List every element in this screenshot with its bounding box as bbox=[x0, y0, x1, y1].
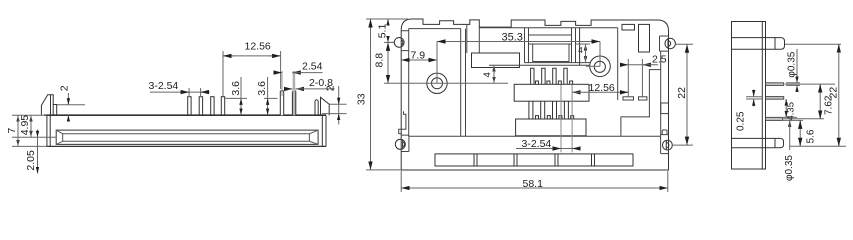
svg-text:4: 4 bbox=[578, 46, 583, 55]
svg-text:φ0.35: φ0.35 bbox=[786, 51, 797, 77]
dimension 7.62 bbox=[783, 84, 835, 119]
svg-text:22: 22 bbox=[676, 87, 688, 99]
dimension 4 (right) bbox=[576, 44, 591, 63]
internal slot walls bbox=[467, 24, 480, 53]
dimension 2 (left tab step) bbox=[57, 93, 85, 121]
header lower pads bbox=[536, 116, 574, 119]
internal shelf line bbox=[489, 64, 590, 66]
svg-text:12.56: 12.56 bbox=[589, 82, 615, 94]
dimension 3-2.54 (pin pitch, left view) bbox=[150, 88, 210, 97]
header lower pins bbox=[529, 101, 569, 119]
socket right wall bbox=[579, 28, 581, 65]
svg-text:φ0.35: φ0.35 bbox=[784, 155, 795, 181]
svg-text:3.6: 3.6 bbox=[256, 81, 268, 96]
dimension phi 0.35 (bottom pin) bbox=[783, 117, 797, 150]
left clip tab bbox=[41, 95, 56, 115]
left view body top edge bbox=[44, 114, 326, 116]
inner wall right bbox=[660, 51, 662, 135]
svg-text:12.56: 12.56 bbox=[245, 40, 271, 52]
dimension 4 (left) bbox=[493, 65, 495, 83]
pin P1 (left group) bbox=[188, 97, 191, 116]
svg-text:2: 2 bbox=[59, 85, 71, 91]
bottom pad dividers bbox=[474, 154, 595, 166]
center line through left hole bbox=[403, 82, 508, 84]
SMD pad b bbox=[639, 97, 647, 100]
dimension 22 (middle view) bbox=[673, 44, 693, 145]
bottom-left ear bbox=[401, 135, 409, 151]
dimension 7.9 bbox=[401, 42, 437, 84]
positioning hole left bbox=[427, 73, 447, 93]
svg-text:4: 4 bbox=[482, 72, 493, 77]
svg-text:33: 33 bbox=[356, 93, 368, 105]
dimension 5.6 bbox=[782, 120, 803, 146]
header middle block bbox=[514, 84, 589, 101]
dimension 22 (right view) bbox=[785, 44, 846, 146]
svg-text:2: 2 bbox=[324, 85, 336, 91]
right clip tab bbox=[315, 97, 329, 115]
card slot left chamfer bbox=[56, 130, 63, 144]
SD socket body bbox=[525, 35, 591, 63]
dimension 7 (left view overall height) bbox=[12, 115, 47, 146]
svg-text:8.8: 8.8 bbox=[374, 53, 386, 68]
dimension 5.1 bbox=[384, 19, 408, 42]
svg-text:5.1: 5.1 bbox=[376, 24, 388, 39]
bottom-right ear bbox=[661, 135, 669, 154]
dimension 3-2.54 (middle view) bbox=[516, 85, 580, 152]
pin P3 (left group) bbox=[211, 97, 214, 116]
L-shaped wall bbox=[621, 70, 661, 137]
dimension 12.56 (middle view) bbox=[572, 91, 628, 93]
top-right ear hole bbox=[665, 38, 675, 48]
dimension 2-0.8 (pin width) bbox=[285, 88, 335, 90]
left edge step bbox=[399, 111, 406, 133]
bottom mounting tab bbox=[732, 138, 784, 147]
header upper pins bbox=[531, 68, 568, 84]
dimension 4.95 bbox=[12, 115, 56, 137]
svg-text:2.05: 2.05 bbox=[25, 150, 37, 171]
svg-text:5.6: 5.6 bbox=[806, 129, 817, 143]
dimension 2.54 (left view) bbox=[275, 71, 323, 96]
svg-text:3-2.54: 3-2.54 bbox=[522, 138, 552, 150]
dimension 0.25 (pin 2 thickness) bbox=[746, 90, 763, 107]
header upper pads bbox=[536, 81, 573, 84]
positioning hole right bbox=[590, 56, 611, 77]
top-left ear bbox=[401, 31, 409, 51]
internal wall lines bbox=[461, 29, 466, 137]
dimension 2 (right tab step) bbox=[322, 86, 347, 124]
dimension phi 0.35 (top pin) bbox=[786, 49, 800, 92]
dimension 3.6 (pin height b) bbox=[264, 77, 278, 115]
top-right ear bbox=[660, 36, 669, 51]
svg-text:3.6: 3.6 bbox=[230, 81, 242, 96]
top-left ear hole bbox=[394, 38, 404, 48]
bottom pad row bbox=[435, 154, 633, 166]
left view body bottom edge bbox=[47, 145, 326, 147]
svg-text:35.3: 35.3 bbox=[502, 32, 523, 44]
SD socket rails bbox=[525, 28, 576, 63]
top mounting tab bbox=[732, 38, 785, 50]
inner outline top right bbox=[479, 28, 617, 100]
left view body right edge (double) bbox=[322, 115, 326, 146]
svg-text:58.1: 58.1 bbox=[523, 178, 544, 190]
pin P6 (0.8 wide) bbox=[292, 90, 295, 115]
SD socket inner bbox=[533, 44, 569, 62]
dimension 12.56 (left view) bbox=[223, 51, 281, 97]
dimension 33 bbox=[366, 19, 401, 170]
inner outline left/top/bottom bbox=[409, 29, 661, 137]
right hole centerline tick bbox=[586, 65, 600, 67]
card slot inner outline bbox=[63, 134, 310, 142]
pin 3 bbox=[766, 117, 783, 120]
svg-text:4.95: 4.95 bbox=[19, 115, 31, 136]
svg-text:2.5: 2.5 bbox=[652, 54, 667, 66]
svg-text:7.9: 7.9 bbox=[411, 50, 426, 62]
dimension 4.35 bbox=[785, 99, 787, 117]
module outline bbox=[401, 19, 668, 170]
svg-text:22: 22 bbox=[828, 87, 840, 99]
svg-text:0.25: 0.25 bbox=[736, 111, 747, 131]
svg-text:2.54: 2.54 bbox=[302, 61, 323, 73]
dimension 2.5 bbox=[622, 59, 659, 97]
svg-text:7: 7 bbox=[6, 128, 18, 134]
left view body left edge (double) bbox=[47, 115, 50, 146]
right edge notch bbox=[661, 103, 669, 114]
svg-text:4.35: 4.35 bbox=[786, 102, 797, 121]
pin P2 (left group) bbox=[199, 97, 202, 116]
dimension 58.1 bbox=[401, 171, 668, 192]
bottom-right ear step bbox=[662, 130, 667, 135]
card slot outer outline bbox=[56, 130, 318, 144]
pin 2 bbox=[766, 97, 784, 100]
header bottom block bbox=[516, 119, 586, 136]
pin P4 bbox=[221, 97, 224, 116]
bottom-left ear hole bbox=[395, 139, 405, 149]
pin P5 (0.8 wide) bbox=[280, 90, 283, 115]
top tall rect component bbox=[639, 24, 650, 52]
dimension 8.8 bbox=[384, 42, 403, 83]
pin 1 bbox=[766, 83, 784, 86]
bottom-right ear hole bbox=[663, 140, 673, 150]
card slot right chamfer bbox=[309, 130, 318, 144]
top small rect component bbox=[622, 24, 635, 30]
svg-text:3-2.54: 3-2.54 bbox=[149, 80, 179, 92]
dimension 3.6 (pin height a) bbox=[225, 77, 247, 115]
dimension 35.3 bbox=[437, 42, 600, 67]
right view body bbox=[732, 22, 766, 170]
component rectangle left bbox=[472, 53, 520, 68]
SMD pad a bbox=[623, 97, 634, 100]
dimension 2.05 bbox=[37, 130, 39, 174]
